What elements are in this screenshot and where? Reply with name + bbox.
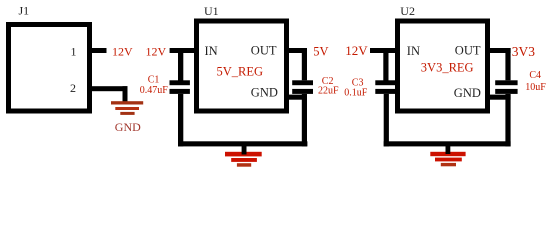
svg-text:22uF: 22uF (318, 86, 339, 97)
svg-text:U1: U1 (204, 4, 219, 18)
wire stub to ground (U2) (446, 146, 451, 154)
svg-text:3V3: 3V3 (512, 44, 535, 59)
wire U2 bottom ground rail (384, 141, 511, 146)
voltage regulator U2 (398, 21, 488, 111)
svg-text:12V: 12V (146, 45, 167, 59)
wire OUT down to C4 (505, 48, 510, 80)
svg-text:IN: IN (205, 44, 218, 58)
capacitor C2 (292, 80, 313, 146)
ground symbol at U1 (225, 152, 262, 167)
svg-text:0.47uF: 0.47uF (140, 85, 169, 96)
ground symbol at U2 (430, 152, 465, 166)
svg-text:0.1uF: 0.1uF (344, 88, 368, 99)
svg-text:1: 1 (71, 45, 77, 59)
svg-text:2: 2 (70, 81, 76, 95)
svg-text:12V: 12V (112, 45, 133, 59)
wire OUT down to C2 (302, 48, 307, 80)
svg-text:10uF: 10uF (525, 82, 546, 93)
svg-text:5V: 5V (313, 45, 328, 59)
wire U2 GND pin stub (490, 95, 511, 100)
wire stub to ground (U1) (242, 146, 247, 155)
svg-text:IN: IN (407, 44, 420, 58)
svg-text:5V_REG: 5V_REG (217, 64, 264, 78)
svg-text:3V3_REG: 3V3_REG (421, 61, 474, 75)
svg-text:12V: 12V (345, 43, 368, 58)
wire J1 pin 2 down to ground (123, 86, 128, 102)
svg-text:GND: GND (251, 86, 278, 100)
wire J1 pin 1 stub (92, 48, 107, 53)
wire U1 GND pin stub (289, 95, 307, 100)
wire 12V into U1 IN (170, 48, 195, 53)
ground symbol at J1 (111, 101, 143, 115)
svg-text:GND: GND (454, 86, 481, 100)
capacitor C1 (170, 50, 190, 146)
connector J1 (9, 25, 90, 112)
capacitor C4 (495, 80, 517, 146)
wire U2 OUT stub (490, 48, 511, 53)
svg-text:OUT: OUT (251, 44, 277, 58)
wire J1 pin 2 stub (92, 86, 128, 91)
svg-text:GND: GND (115, 120, 141, 134)
svg-text:U2: U2 (400, 4, 415, 18)
capacitor C3 (375, 50, 395, 146)
voltage regulator U1 (197, 21, 287, 111)
wire U1 bottom ground rail (178, 141, 307, 146)
svg-text:OUT: OUT (455, 44, 481, 58)
wire 12V into U2 IN (370, 48, 398, 53)
wire U1 OUT stub (289, 48, 307, 53)
svg-text:J1: J1 (19, 4, 30, 18)
svg-text:C4: C4 (529, 70, 541, 81)
svg-text:C1: C1 (148, 74, 160, 85)
